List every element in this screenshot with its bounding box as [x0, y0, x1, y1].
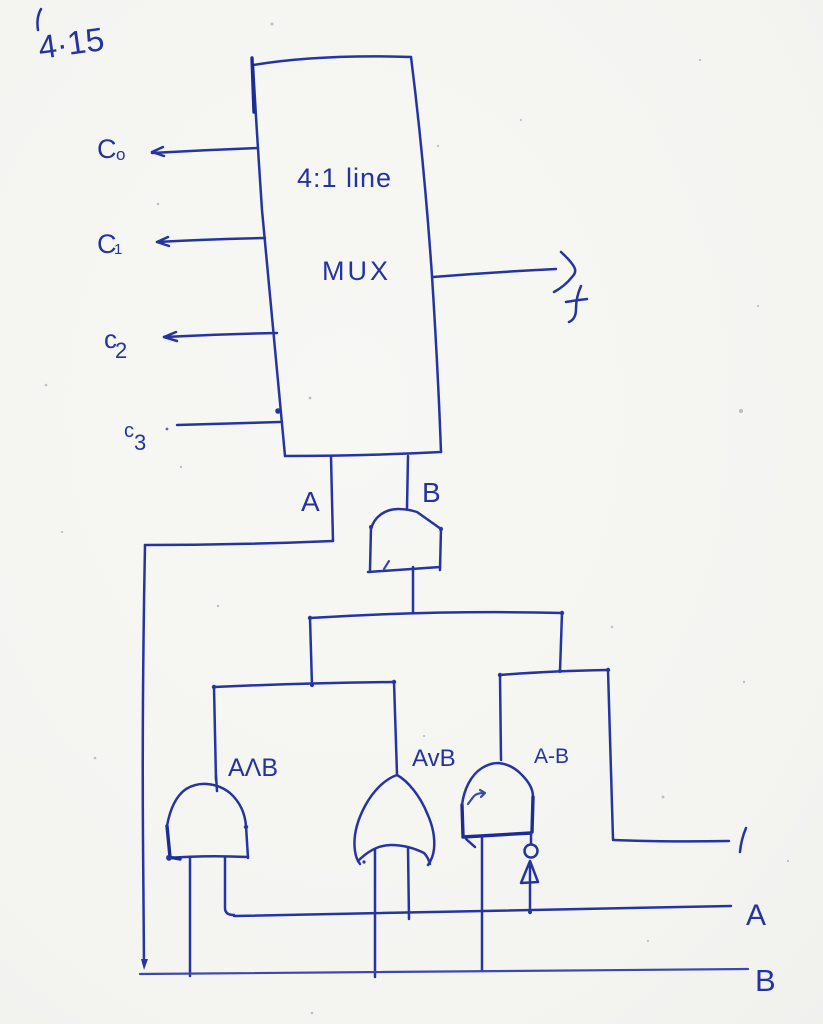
gate G2: AND gate A AND B — [166, 776, 248, 861]
wire select B drop from MUX — [407, 456, 408, 508]
svg-text:1: 1 — [114, 241, 122, 258]
wire right routing box left side to A-B gate — [500, 675, 501, 760]
wire left vertical rail down to B line — [143, 545, 145, 964]
wire input 1 line — [613, 840, 729, 841]
junction arrow at bottom of left rail — [141, 959, 148, 970]
label C3 — [124, 420, 146, 455]
svg-text:A-B: A-B — [534, 745, 569, 768]
svg-text:B: B — [755, 963, 776, 998]
wire f output — [433, 252, 575, 292]
wire C1 input — [157, 237, 265, 246]
label C1 — [97, 229, 122, 259]
wire left routing box right side to OR gate — [394, 682, 397, 774]
wire G4 left leg to B line — [481, 837, 484, 971]
label C2 — [104, 324, 127, 363]
wire select A drop from MUX — [331, 457, 333, 541]
wire rail1 left drop — [310, 618, 312, 686]
gate G4: AND gate A AND NOT B — [462, 763, 533, 847]
op block U1: 4:1 line MUX box — [252, 56, 441, 456]
wire right routing box right side — [608, 670, 613, 839]
svg-text:2: 2 — [115, 338, 127, 363]
label f — [566, 286, 587, 322]
wire G1 bottom stem — [412, 567, 415, 612]
svg-text:B: B — [422, 477, 441, 508]
wire C3 input — [166, 408, 281, 430]
wire A select horizontal to left rail — [145, 541, 333, 545]
wire left routing box left side to AND gate — [214, 687, 216, 780]
wire G2 left leg to B line — [189, 858, 192, 976]
wire rail1 right drop — [560, 613, 562, 671]
wire C2 input — [164, 332, 277, 341]
svg-text:MUX: MUX — [322, 256, 391, 286]
svg-text:A: A — [301, 486, 320, 517]
wire G3 left leg to B line — [374, 849, 377, 977]
svg-text:C: C — [97, 134, 117, 164]
svg-text:A: A — [746, 899, 766, 932]
problem number label 4.15 — [36, 9, 107, 66]
wire right routing box top — [498, 668, 610, 677]
label input 1 — [740, 828, 746, 852]
inverter on G4 B input — [521, 833, 538, 914]
svg-text:o: o — [116, 145, 125, 164]
svg-text:3: 3 — [134, 430, 146, 455]
wire B input line — [140, 969, 748, 974]
wire G2 right leg to A line — [225, 857, 234, 915]
gate G1: AND gate feeding B select — [368, 509, 443, 572]
svg-text:4:1 line: 4:1 line — [297, 163, 392, 193]
gate G3: OR gate A OR B — [354, 775, 434, 865]
svg-text:AΛB: AΛB — [228, 754, 278, 782]
label C0 — [97, 134, 125, 164]
wire left routing box top — [212, 680, 396, 689]
svg-text:c: c — [124, 420, 134, 442]
wire G3 right leg to A line — [408, 848, 409, 919]
wire C0 input — [152, 147, 258, 156]
wire rail level 1 — [308, 611, 564, 620]
wire A input line — [234, 906, 731, 916]
svg-text:AvB: AvB — [412, 745, 456, 772]
